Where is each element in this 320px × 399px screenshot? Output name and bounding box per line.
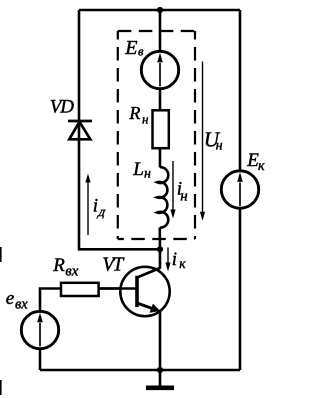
svg-text:e: e	[6, 288, 14, 309]
svg-text:L: L	[132, 159, 144, 180]
svg-text:R: R	[52, 255, 65, 276]
svg-text:к: к	[258, 159, 265, 174]
svg-text:VT: VT	[102, 255, 124, 276]
svg-text:к: к	[179, 256, 186, 271]
svg-text:н: н	[142, 112, 148, 127]
svg-text:i: i	[93, 196, 98, 217]
svg-text:i: i	[172, 249, 177, 270]
svg-text:н: н	[180, 188, 187, 204]
svg-text:E: E	[124, 37, 137, 59]
svg-text:н: н	[216, 139, 223, 154]
svg-text:н: н	[144, 167, 151, 182]
svg-text:вх: вх	[15, 297, 28, 313]
svg-text:вх: вх	[65, 263, 79, 279]
svg-text:в: в	[138, 45, 144, 59]
svg-text:VD: VD	[50, 97, 74, 118]
svg-text:R: R	[128, 103, 140, 123]
